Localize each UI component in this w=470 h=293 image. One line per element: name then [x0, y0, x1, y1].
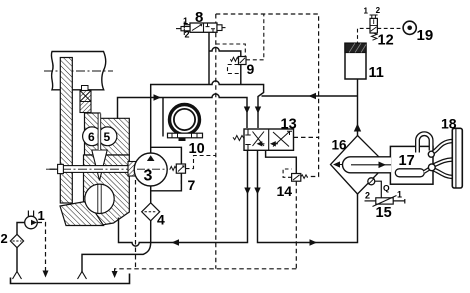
indicator 19 [403, 21, 416, 34]
gear 6 [83, 127, 102, 146]
wire: bottom left return line with hop [119, 150, 248, 246]
arrow left on bottom left line [172, 239, 180, 246]
bevel gear cone (white) [92, 150, 107, 181]
gearbox housing: lower block [84, 155, 130, 225]
arrow right on L1 [154, 94, 162, 101]
valve 14 dashed stubs [283, 169, 292, 177]
wall / disc strip [60, 58, 72, 204]
svg-text:6: 6 [88, 130, 95, 144]
valve 9 pilot dashed [216, 14, 264, 74]
gear 5 [98, 114, 117, 151]
shaft coupling at pump [128, 162, 136, 177]
shaft centerline [44, 70, 113, 72]
bolt circle lower [428, 164, 435, 171]
arrow down valve13 right drain [254, 188, 260, 195]
bracket 18 [452, 128, 462, 188]
tank line [11, 274, 130, 284]
wire: test point to valve 15 [375, 181, 382, 198]
svg-text:1: 1 [364, 7, 369, 16]
wire: valve13 B port to valve14 [266, 150, 297, 173]
wire: branch to clamp 10 [162, 98, 164, 137]
top dashed pilot line to x=318.6 [216, 14, 319, 177]
long dashed pilot vertical x=215.8 [215, 14, 217, 269]
svg-text:12: 12 [378, 33, 394, 49]
bottom dashed collector [115, 269, 297, 271]
valve 13 [233, 129, 294, 150]
filter 2 [10, 234, 23, 247]
arrow down into valve 13 left [244, 107, 250, 114]
svg-text:5: 5 [104, 130, 111, 144]
accumulator 11 [345, 43, 366, 79]
svg-text:11: 11 [369, 65, 384, 81]
svg-text:7: 7 [188, 177, 196, 193]
muffler capsule in box 17 [395, 168, 430, 177]
svg-text:1: 1 [397, 190, 402, 200]
wire: L2 pump line y=84.5 with hop over dashed [151, 81, 264, 128]
wire: pump1 to filter2 [17, 223, 25, 235]
pump drive shaft [46, 164, 167, 173]
svg-text:2: 2 [1, 231, 8, 246]
svg-text:4: 4 [157, 212, 165, 228]
tank symbol at x=82 [78, 272, 87, 280]
svg-text:17: 17 [399, 153, 415, 169]
pump 3 [134, 153, 167, 186]
valve 15 orifice [365, 183, 405, 207]
pipes from box 17 to bracket 18 [433, 141, 453, 177]
valve 7 pilot dashed [181, 156, 215, 186]
svg-text:1: 1 [38, 208, 45, 223]
arrow up on cooler supply [354, 124, 361, 132]
wire: filter2 to tank [16, 248, 18, 272]
arrow down at x=45.5 [43, 271, 49, 278]
valve 12 [364, 6, 381, 40]
wire: valve 9 branch [209, 33, 241, 85]
valve 8 [176, 16, 226, 40]
arrow down at dashed collector end [112, 271, 118, 278]
arrow left on L3 [309, 93, 317, 100]
bolt circle upper [428, 151, 434, 157]
svg-text:2: 2 [376, 6, 381, 15]
wire: cooler return down to bottom line [258, 150, 358, 242]
test point circle on cooler [368, 178, 375, 185]
wire: tank spur with jog [82, 243, 151, 273]
svg-text:10: 10 [189, 141, 205, 157]
valve 14 [292, 174, 308, 182]
svg-text:8: 8 [195, 9, 203, 26]
svg-text:2: 2 [185, 30, 190, 40]
wire: L3 from accumulator y=96 [262, 76, 358, 136]
svg-text:2: 2 [365, 191, 370, 201]
svg-text:18: 18 [441, 116, 457, 132]
cooler pipe loop capsule [343, 157, 392, 173]
clamp 10 [168, 105, 203, 142]
dashed drain x=135.5 [135, 180, 137, 269]
hand pump 1 [25, 211, 38, 229]
svg-text:9: 9 [247, 61, 255, 77]
wire: pump suction to filter 4 [150, 186, 152, 203]
arrow down into valve 13 mid [255, 107, 261, 114]
gearbox housing: upper gear block [85, 113, 130, 155]
bearing stack under shaft [80, 86, 91, 113]
svg-text:13: 13 [281, 117, 297, 133]
arrow down valve13 left drain [244, 188, 250, 195]
wire: filter 4 to junction [150, 221, 152, 243]
dashed drain from pump 1 [38, 223, 46, 271]
valve 7 [170, 164, 186, 173]
svg-text:15: 15 [376, 205, 392, 221]
valve 7 loop [151, 147, 182, 191]
dashed drain below valve 14 [295, 181, 297, 269]
filter 4 [142, 203, 160, 221]
svg-text:19: 19 [417, 27, 434, 44]
gearbox housing: bottom wedge [60, 201, 104, 226]
valve 12 dashed connections [358, 28, 404, 43]
wire: pump 3 pressure riser [150, 98, 152, 154]
valve 9 [230, 57, 246, 65]
cooler 16 diamond [331, 136, 387, 195]
input shaft cylinder [51, 52, 105, 90]
wire: L1 suction/feed line y=97.5 [118, 94, 248, 128]
svg-text:Q: Q [383, 183, 390, 193]
lower gear circle [85, 184, 114, 213]
svg-text:3: 3 [144, 168, 153, 185]
svg-text:16: 16 [332, 138, 348, 153]
arrow right on bottom right line [310, 239, 318, 246]
svg-text:1: 1 [183, 16, 188, 26]
svg-text:14: 14 [277, 183, 293, 199]
tank symbol at x=17 [13, 272, 22, 280]
radiator box 17 [390, 146, 433, 184]
hook pipe on box 17 [418, 134, 432, 153]
